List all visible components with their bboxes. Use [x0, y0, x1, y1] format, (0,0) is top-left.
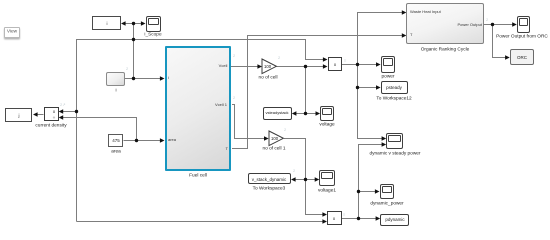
svg-text:100: 100 [264, 64, 272, 69]
svg-text:100: 100 [271, 136, 279, 141]
